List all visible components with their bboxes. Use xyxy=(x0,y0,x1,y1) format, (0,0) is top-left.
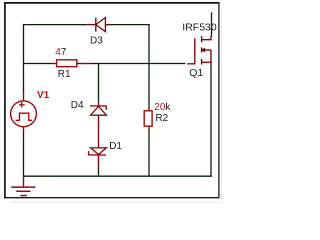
border frame bottom xyxy=(4,197,219,199)
border frame top xyxy=(4,2,220,4)
border frame right xyxy=(218,2,220,198)
svg-text:D1: D1 xyxy=(109,141,122,152)
wire vertical drop to R2 xyxy=(148,24,150,108)
svg-text:Q1: Q1 xyxy=(189,67,203,79)
wire source down to bottom rail xyxy=(210,62,212,176)
svg-text:D4: D4 xyxy=(71,100,84,111)
svg-text:47: 47 xyxy=(55,47,67,58)
wire left rail upper xyxy=(23,24,25,91)
svg-text:D3: D3 xyxy=(90,36,103,47)
svg-text:R2: R2 xyxy=(155,113,168,124)
wire drain stub top xyxy=(211,12,213,37)
zener diode D1 xyxy=(89,148,107,167)
channel tick middle xyxy=(201,47,203,52)
gate bar xyxy=(194,38,196,64)
source connect xyxy=(202,50,211,62)
screen edge artifact right xyxy=(221,10,223,202)
svg-text:R1: R1 xyxy=(58,69,71,80)
channel tick drain xyxy=(201,36,203,42)
wire bottom rail xyxy=(23,175,212,177)
diode D3 xyxy=(87,18,110,32)
resistor R1 xyxy=(52,60,91,67)
wire top rail left of D3 xyxy=(23,24,87,26)
mosfet Q1 xyxy=(187,36,211,65)
zener diode D4 xyxy=(90,101,106,148)
wire from R1 to gate xyxy=(91,63,186,65)
gate lead xyxy=(187,63,195,65)
voltage source V1 xyxy=(11,91,37,132)
drain stub xyxy=(202,36,211,39)
wire below D1 to bottom rail xyxy=(98,167,100,177)
channel tick source xyxy=(201,59,203,65)
ground xyxy=(11,176,35,195)
svg-text:V1: V1 xyxy=(37,90,50,101)
bulk arrow xyxy=(202,49,211,51)
svg-text:IRF530: IRF530 xyxy=(182,22,217,34)
wire top rail right of D3 to corner xyxy=(105,24,149,26)
border frame left xyxy=(4,2,6,198)
screen edge artifact bottom xyxy=(10,201,222,203)
wire below R2 to bottom rail xyxy=(148,130,150,176)
wire branch down to D4 xyxy=(98,64,100,101)
resistor R2 xyxy=(144,107,152,130)
svg-text:20k: 20k xyxy=(154,102,171,113)
wire left rail lower xyxy=(23,131,25,177)
wire gate rail from left rail to R1 xyxy=(23,63,54,65)
